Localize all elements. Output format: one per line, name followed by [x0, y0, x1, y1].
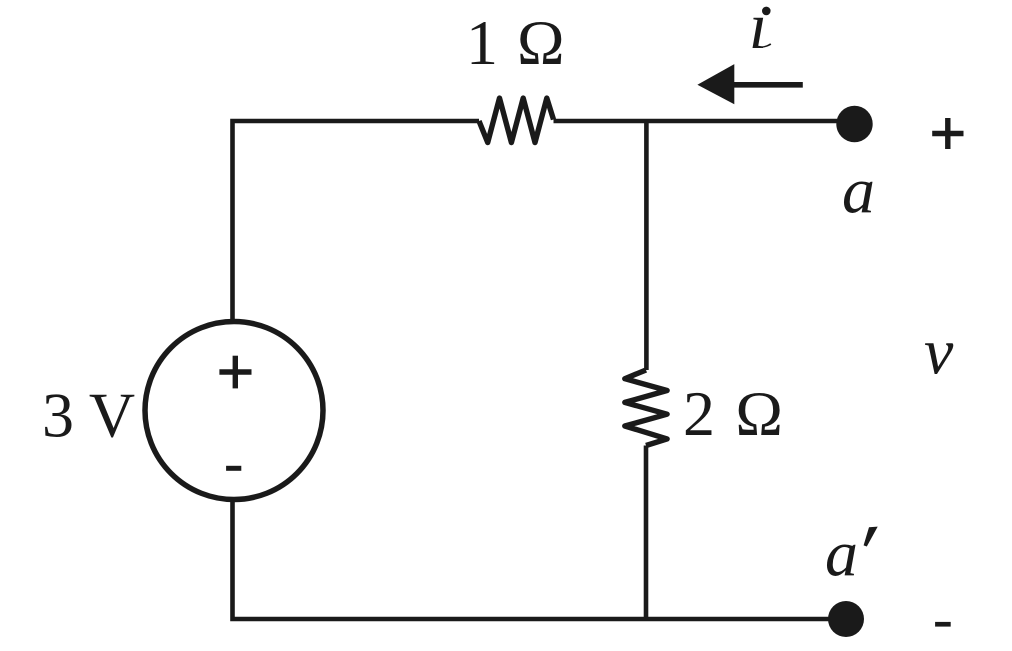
plus sign inside source [219, 356, 251, 389]
svg-text:2 Ω: 2 Ω [683, 378, 785, 449]
wire: middle vertical from 2-ohm to bottom wire [644, 446, 649, 620]
plus sign at terminal a [932, 118, 963, 149]
terminal node a (dot) [836, 106, 872, 142]
minus sign at terminal a-prime [935, 622, 951, 627]
terminal node a-prime (dot) [828, 601, 864, 637]
wire: top wire from 1-ohm to terminal a [554, 119, 855, 124]
resistor R2 2 ohm zigzag [625, 370, 667, 446]
svg-text:a: a [842, 155, 875, 228]
wire: middle vertical from top wire to 2-ohm [644, 121, 649, 370]
wire: top-left corner (left branch up + top wire to 1-ohm) [233, 121, 480, 323]
svg-text:3 V: 3 V [42, 380, 135, 451]
svg-text:a: a [825, 517, 858, 590]
current arrow for i [697, 64, 802, 104]
minus sign inside source [226, 466, 241, 471]
svg-text:1 Ω: 1 Ω [466, 7, 566, 78]
svg-text:v: v [924, 316, 954, 389]
voltage source V1 circle [145, 322, 323, 500]
wire: bottom wire + left branch down [233, 499, 847, 619]
prime mark of a-prime [864, 527, 878, 547]
dot of i [762, 7, 771, 16]
resistor R1 1 ohm zigzag [479, 98, 554, 142]
bottom flick of i [758, 43, 771, 48]
